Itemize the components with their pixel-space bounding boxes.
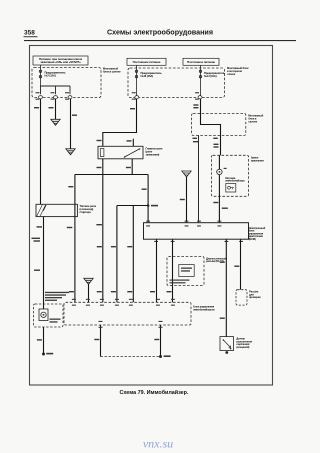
svg-text:зажигания: зажигания bbox=[251, 160, 264, 163]
svg-text:Схема 79. Иммобилайзер.: Схема 79. Иммобилайзер. bbox=[120, 389, 189, 396]
svg-text:отсеке: отсеке bbox=[227, 73, 236, 76]
svg-text:№14 (10А): №14 (10А) bbox=[204, 74, 217, 78]
svg-text:№7 (15А): №7 (15А) bbox=[45, 74, 56, 78]
svg-text:зажигания «ON» или «START»: зажигания «ON» или «START» bbox=[40, 60, 81, 64]
svg-text:(ECM): (ECM) bbox=[249, 237, 256, 241]
svg-text:Постоянное питание: Постоянное питание bbox=[133, 60, 161, 64]
svg-text:Постоянное питание: Постоянное питание bbox=[187, 60, 215, 64]
svg-text:иммобилайзера: иммобилайзера bbox=[225, 179, 245, 183]
svg-text:салоне: салоне bbox=[248, 121, 257, 124]
svg-text:Схемы электрооборудования: Схемы электрооборудования bbox=[107, 28, 213, 37]
svg-text:vnx.su: vnx.su bbox=[143, 437, 173, 451]
svg-text:зажигания): зажигания) bbox=[146, 153, 160, 157]
svg-text:(концевой): (концевой) bbox=[236, 345, 249, 349]
svg-text:проверки: проверки bbox=[249, 296, 261, 299]
svg-text:№16 (15А): №16 (15А) bbox=[141, 74, 154, 78]
svg-text:иммобилайзером: иммобилайзером bbox=[193, 307, 214, 311]
svg-text:стартера: стартера bbox=[80, 211, 92, 214]
svg-text:блок в салоне: блок в салоне bbox=[103, 70, 121, 74]
svg-text:358: 358 bbox=[24, 30, 35, 37]
